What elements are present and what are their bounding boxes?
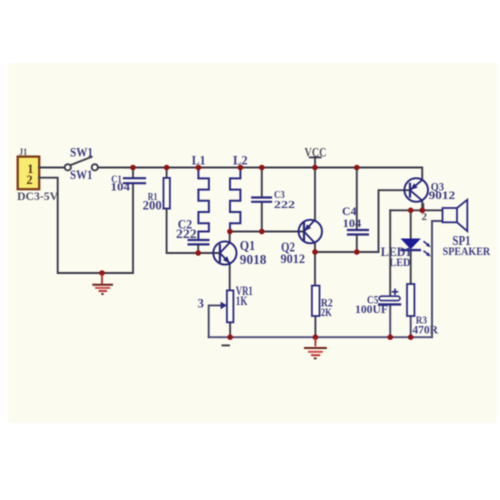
- svg-text:SPEAKER: SPEAKER: [443, 245, 491, 258]
- svg-text:2: 2: [26, 173, 32, 187]
- svg-text:DC3-5V: DC3-5V: [17, 189, 58, 203]
- svg-text:104: 104: [343, 217, 362, 230]
- svg-text:222: 222: [274, 199, 295, 211]
- svg-text:1K: 1K: [236, 294, 248, 308]
- svg-text:9012: 9012: [281, 252, 306, 266]
- svg-text:J1: J1: [19, 148, 27, 158]
- svg-text:9018: 9018: [240, 252, 267, 267]
- svg-text:LED: LED: [389, 256, 410, 269]
- svg-text:9012: 9012: [429, 188, 456, 202]
- svg-text:Q1: Q1: [240, 238, 256, 253]
- svg-text:2K: 2K: [321, 305, 332, 319]
- svg-text:470R: 470R: [412, 322, 438, 336]
- svg-text:SW1: SW1: [70, 168, 93, 182]
- svg-text:3: 3: [198, 296, 204, 310]
